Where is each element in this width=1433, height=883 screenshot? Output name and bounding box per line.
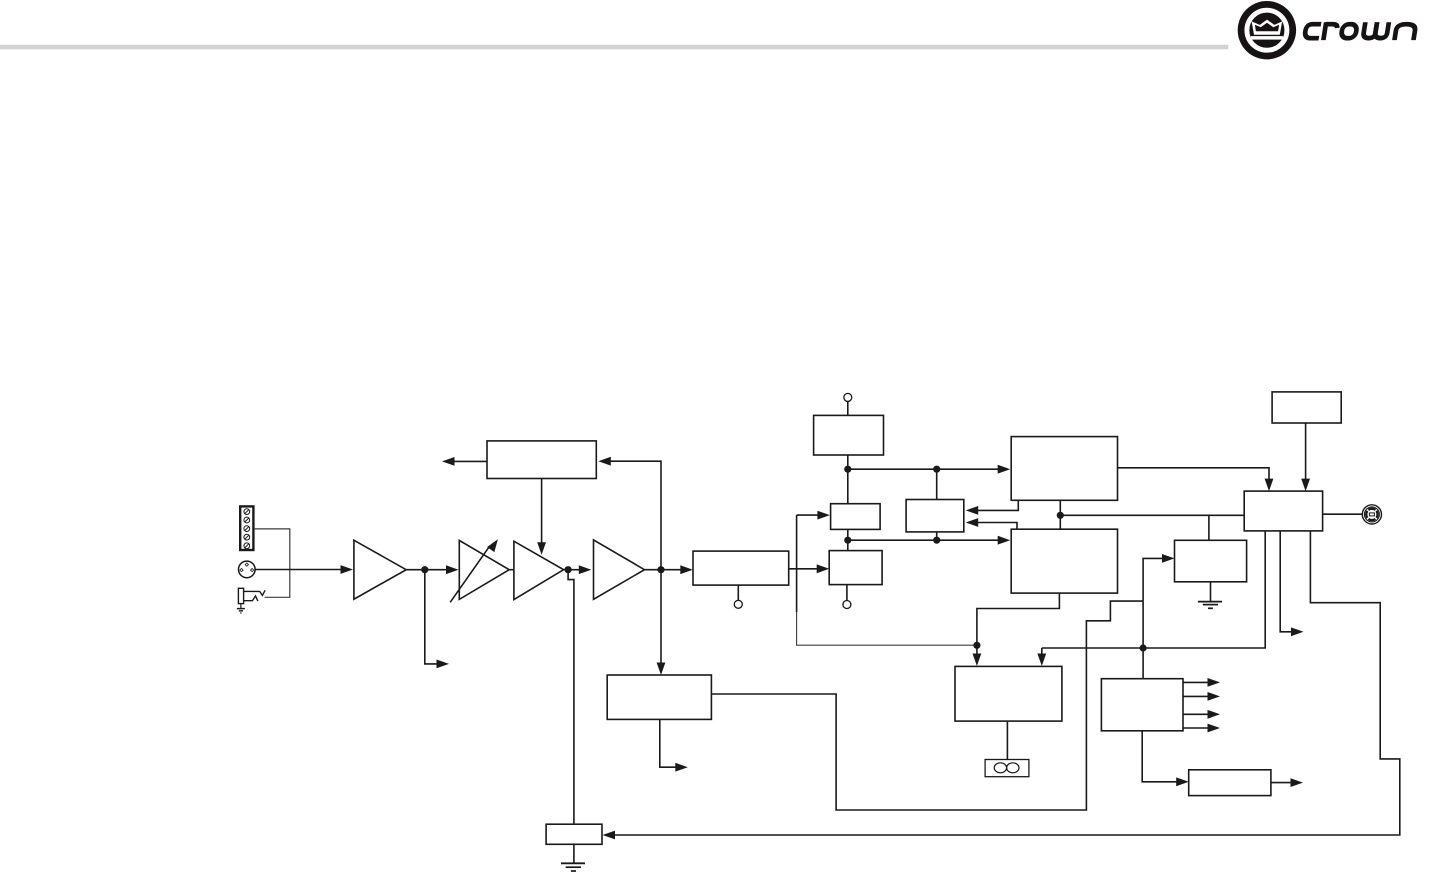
- mid box B8: [906, 500, 964, 532]
- lower bus wire to big box B9: [848, 539, 998, 541]
- LED driver box B12: [1101, 679, 1183, 731]
- wire barrier strip to jack bus: [254, 529, 290, 597]
- ODEP box B2: [607, 675, 711, 719]
- wire B6 down to comp box: [847, 455, 849, 504]
- variable gain amp A2: [459, 540, 509, 599]
- wire B14 down to output box: [1305, 423, 1307, 479]
- node above limiter: [973, 642, 980, 649]
- branch wire from A1 node down: [425, 570, 437, 664]
- ground under jack: [237, 604, 245, 613]
- wire B1 output left: [454, 460, 487, 462]
- wire output box tap to arrow right: [1280, 531, 1291, 632]
- wire tap to comp box: [797, 514, 818, 516]
- output box B15: [1244, 491, 1322, 531]
- wire B12 bottom to fan box: [1142, 731, 1177, 782]
- gain control arrow through A2: [450, 546, 489, 602]
- limiter box B11: [955, 666, 1062, 721]
- terminal under B3: [737, 585, 739, 600]
- node after A1: [421, 566, 428, 573]
- header gray rule: [0, 45, 1228, 50]
- wire B1 down to A3: [541, 479, 543, 543]
- barrier strip connector J1: [240, 506, 253, 550]
- stub big box B7 to B8: [978, 500, 1019, 510]
- ground under relay box: [1198, 582, 1222, 609]
- wire XLR to amp A1: [255, 569, 341, 571]
- amp A1: [354, 540, 406, 599]
- wire thermal vertical down to LED box: [1142, 601, 1144, 679]
- wire B9 bottom to limiter: [977, 593, 1060, 645]
- wire B8 bottom to lower bus: [936, 532, 938, 540]
- wire A3 output: [564, 569, 580, 571]
- node on wire: [933, 466, 940, 473]
- gate box B5: [829, 551, 882, 585]
- wire limiter to display: [1006, 721, 1008, 759]
- stub big box B9 to B8: [978, 523, 1017, 530]
- ground under mute box: [561, 844, 585, 871]
- node gate-bus: [844, 537, 851, 544]
- node on vertical: [1140, 644, 1147, 651]
- node on lower bus: [933, 537, 940, 544]
- crown logo wordmark: [1304, 22, 1416, 40]
- node after A4: [657, 566, 664, 573]
- phone jack J3: [238, 588, 265, 603]
- wire B3 output: [789, 568, 818, 570]
- long return wire output box to mute box: [615, 531, 1400, 835]
- wire B7 to B9: [1059, 500, 1061, 529]
- amp A3: [514, 541, 564, 599]
- node after A3: [565, 566, 572, 573]
- bridge box B14: [1272, 392, 1341, 423]
- wire A1 output: [406, 569, 446, 571]
- level box B6: [814, 415, 884, 455]
- feedback box B1: [487, 441, 596, 479]
- node B6-comp: [844, 466, 851, 473]
- crown logo emblem: [1238, 1, 1296, 59]
- comp box B4: [831, 504, 881, 530]
- wire A2 to A3: [509, 569, 514, 571]
- stage box B3: [693, 551, 789, 585]
- feedback wire from A4 node up to B1: [610, 461, 661, 570]
- big lower box B9: [1011, 529, 1117, 593]
- wire B13 output: [1271, 782, 1291, 784]
- wire B2 bottom out: [660, 719, 676, 767]
- LED output arrows: [1183, 681, 1208, 683]
- mute box B16: [546, 824, 602, 844]
- wire staircase to relay box: [1143, 558, 1162, 601]
- display box with infinity: [985, 760, 1029, 777]
- branch down to relay box: [1208, 515, 1210, 540]
- fan box B13: [1189, 770, 1271, 796]
- wire B2 right to staircase up to thermal arrow: [711, 601, 1143, 810]
- wire node down to mid box B8: [936, 469, 938, 499]
- wire A4 output to node: [645, 569, 662, 571]
- wire B7 right to output box: [1118, 468, 1270, 479]
- relay box B10: [1175, 540, 1247, 582]
- wire node right to big box B7: [848, 468, 998, 470]
- thin wire down and right to limiter node: [797, 612, 977, 645]
- terminal under B5: [846, 585, 848, 601]
- node between B7 B9: [1057, 512, 1064, 519]
- branch wire from A3 node down to mute box: [568, 570, 574, 825]
- bus wire node to output box: [1060, 514, 1244, 516]
- wire output box to speakon: [1323, 513, 1363, 515]
- amp A4: [594, 540, 645, 599]
- wire comp bottom to gate top: [847, 529, 849, 550]
- terminal above B6: [844, 393, 852, 401]
- wire A4 node down to ODEP box: [660, 570, 662, 663]
- speakon connector J4: [1362, 505, 1381, 524]
- wire limiter bus to output box bottom: [1042, 531, 1265, 648]
- wire node to stage box: [661, 569, 681, 571]
- XLR connector J2: [239, 561, 256, 578]
- big upper box B7: [1011, 437, 1117, 501]
